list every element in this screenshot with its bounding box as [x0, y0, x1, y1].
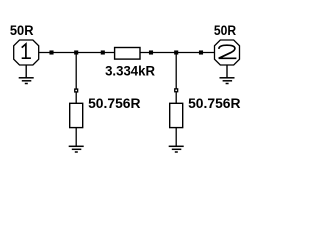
svg-text:50R: 50R: [10, 23, 34, 38]
label value 50R of port P2: [214, 23, 236, 38]
svg-text:3.334kR: 3.334kR: [105, 64, 155, 79]
resistor R3 (right shunt 50.756R): [170, 103, 183, 127]
node junction dot A: [49, 50, 53, 54]
wire below resistor R3: [175, 128, 177, 147]
node junction dot D: [149, 50, 153, 54]
label value 3.334kR of resistor R1: [105, 64, 155, 79]
wire left shunt vertical segment: [75, 53, 77, 104]
port P2 (octagon terminal 2): [215, 40, 240, 65]
resistor R1 (series 3.334kR): [115, 48, 140, 60]
svg-text:50.756R: 50.756R: [88, 96, 141, 111]
svg-text:50R: 50R: [214, 23, 236, 38]
node junction dot F: [199, 50, 203, 54]
ground under resistor R2: [69, 146, 84, 152]
ground under port P2: [220, 65, 235, 84]
ground under resistor R3: [169, 146, 184, 152]
wire below resistor R2: [75, 128, 77, 147]
node junction dot C: [101, 50, 105, 54]
label value 50.756R of resistor R3: [188, 96, 241, 111]
label value 50.756R of resistor R2: [88, 96, 141, 111]
svg-text:50.756R: 50.756R: [188, 96, 241, 111]
wire right shunt vertical segment: [175, 53, 177, 104]
resistor R2 (left shunt 50.756R): [70, 103, 83, 127]
node junction dot E (tee to right shunt): [174, 50, 178, 54]
ground under port P1: [19, 65, 34, 84]
pin marker on left shunt wire: [74, 88, 78, 92]
pin marker on right shunt wire: [174, 88, 178, 92]
wire main horizontal net from port 1 to port 2: [39, 52, 215, 54]
node junction dot B (tee to left shunt): [74, 50, 78, 54]
port P1 (octagon terminal 1): [14, 40, 39, 65]
label value 50R of port P1: [10, 23, 34, 38]
